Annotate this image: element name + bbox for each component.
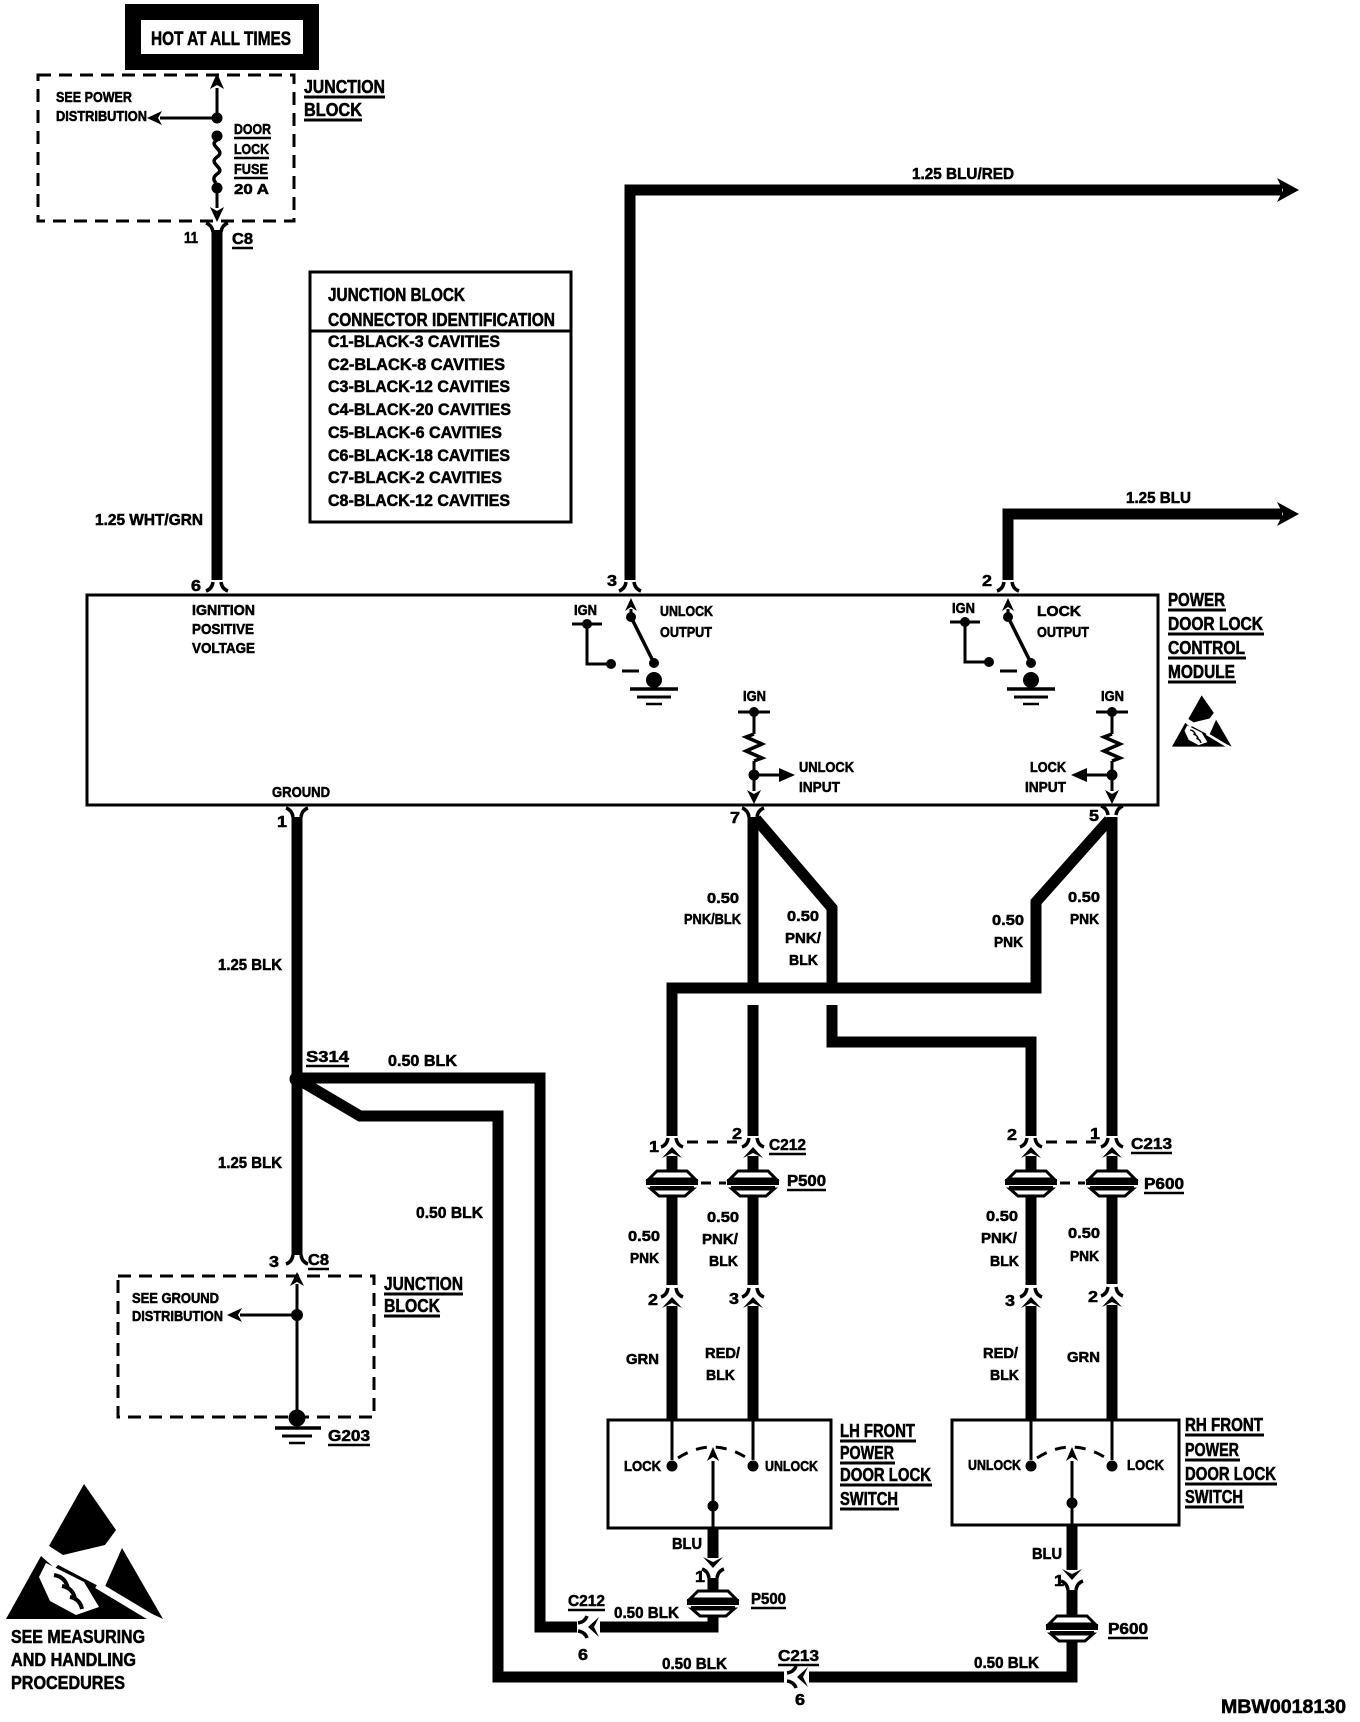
resistor: lock input pull-up xyxy=(1096,688,1128,781)
svg-text:6: 6 xyxy=(191,578,201,595)
wire: fuse output down-arrow to C8 xyxy=(210,193,224,222)
svg-text:FUSE: FUSE xyxy=(234,161,268,178)
dashed mating line C212 xyxy=(687,1141,737,1144)
svg-text:OUTPUT: OUTPUT xyxy=(660,624,712,641)
svg-text:C5-BLACK-6 CAVITIES: C5-BLACK-6 CAVITIES xyxy=(328,423,502,442)
wire 0.50 PNK/BLK (C212-2 to switch) xyxy=(748,1196,759,1285)
connector label C213 xyxy=(1131,1136,1172,1153)
svg-text:LOCK: LOCK xyxy=(624,1458,661,1475)
wire: pin 7 to C212 cavity 2 (below crossover) xyxy=(748,1005,759,1136)
svg-text:C3-BLACK-12 CAVITIES: C3-BLACK-12 CAVITIES xyxy=(328,377,510,396)
svg-text:RED/: RED/ xyxy=(705,1345,741,1362)
svg-text:2: 2 xyxy=(648,1292,658,1309)
hot at all times box xyxy=(125,4,319,70)
arrow to ground distribution xyxy=(227,1308,297,1322)
grommet P500 (common) xyxy=(687,1591,739,1616)
wire label 0.50 PNK/BLK (pin 7) xyxy=(684,890,741,928)
svg-text:0.50: 0.50 xyxy=(1068,1225,1100,1242)
svg-text:SEE GROUND: SEE GROUND xyxy=(132,1290,219,1307)
svg-text:BLU: BLU xyxy=(1032,1546,1062,1563)
connector C213 cavity 1 xyxy=(1101,1138,1123,1172)
svg-text:C213: C213 xyxy=(1131,1136,1172,1153)
svg-text:UNLOCK: UNLOCK xyxy=(660,603,713,620)
wire 0.50 BLK (P600 to C213 ground) xyxy=(809,1640,1072,1677)
svg-text:C1-BLACK-3 CAVITIES: C1-BLACK-3 CAVITIES xyxy=(328,332,500,351)
wire: pin 5 to C213 cavity 1 xyxy=(1107,817,1118,1136)
wire 1.25 BLK (S314 to junction block C8) xyxy=(292,1079,303,1255)
wire to G203 xyxy=(296,1315,299,1410)
svg-text:CONTROL: CONTROL xyxy=(1168,638,1245,658)
svg-text:C2-BLACK-8 CAVITIES: C2-BLACK-8 CAVITIES xyxy=(328,355,505,374)
svg-text:G203: G203 xyxy=(328,1428,370,1445)
svg-text:DOOR LOCK: DOOR LOCK xyxy=(1168,614,1263,634)
svg-text:OUTPUT: OUTPUT xyxy=(1037,624,1089,641)
connector: RH switch pin 3 xyxy=(1020,1288,1042,1421)
wire 0.50 PNK/BLK (C213-2 to switch) xyxy=(1026,1196,1037,1285)
svg-text:DOOR LOCK: DOOR LOCK xyxy=(840,1465,931,1485)
ground (unlock output) xyxy=(630,689,678,704)
svg-text:MODULE: MODULE xyxy=(1168,662,1235,682)
svg-text:BLK: BLK xyxy=(709,1253,738,1270)
svg-text:MBW0018130: MBW0018130 xyxy=(1221,1697,1346,1718)
wire 1.25 WHT/GRN (pin 6 feed) xyxy=(212,230,223,580)
wire 0.50 BLK branch A (S314 to C212 ground run) xyxy=(297,1078,577,1627)
svg-text:3: 3 xyxy=(1005,1293,1015,1310)
svg-text:PNK/BLK: PNK/BLK xyxy=(684,911,741,928)
pin 7 connector cup xyxy=(742,808,764,817)
wire: lock input to pin 5 xyxy=(1105,780,1119,804)
svg-text:PNK/: PNK/ xyxy=(981,1230,1018,1247)
svg-text:DISTRIBUTION: DISTRIBUTION xyxy=(132,1308,223,1325)
svg-text:LOCK: LOCK xyxy=(1037,603,1081,620)
svg-text:1.25 BLK: 1.25 BLK xyxy=(218,1155,282,1172)
svg-text:LOCK: LOCK xyxy=(1127,1457,1164,1474)
svg-text:RED/: RED/ xyxy=(983,1345,1019,1362)
svg-text:SWITCH: SWITCH xyxy=(840,1489,898,1509)
connector label C212 (ground) xyxy=(568,1593,605,1610)
svg-text:INPUT: INPUT xyxy=(799,779,840,796)
resistor: unlock input pull-up xyxy=(738,688,770,781)
svg-text:JUNCTION: JUNCTION xyxy=(384,1274,463,1294)
connector label C213 (ground) xyxy=(778,1648,819,1665)
svg-text:P500: P500 xyxy=(787,1173,826,1190)
wire 1.25 BLK (pin 1 to S314) xyxy=(292,817,303,1079)
pin 5 connector cup xyxy=(1101,806,1123,815)
svg-text:POWER: POWER xyxy=(1168,590,1225,610)
wire: pin 7 to C212 cavity 2 (upper) xyxy=(748,817,759,983)
connector C213 cavity 2 xyxy=(1020,1138,1042,1172)
ground G203 xyxy=(275,1410,321,1444)
lock output driver switch xyxy=(1002,598,1039,688)
wire label RED/BLK (LH) xyxy=(705,1345,741,1384)
RH front power door lock switch box xyxy=(952,1420,1179,1525)
wire label 0.50 PNK (pin 5) xyxy=(1068,889,1100,928)
svg-text:7: 7 xyxy=(730,810,740,827)
svg-text:P500: P500 xyxy=(751,1591,786,1608)
junction block label (ground) xyxy=(384,1274,463,1316)
svg-text:11: 11 xyxy=(184,230,198,247)
svg-text:LOCK: LOCK xyxy=(1030,759,1066,776)
wire BLU (LH switch common) xyxy=(708,1528,719,1558)
connector C8 cavity 3 cup xyxy=(286,1255,308,1264)
svg-text:0.50 BLK: 0.50 BLK xyxy=(388,1053,457,1070)
see ground distribution label xyxy=(132,1290,223,1325)
svg-text:0.50 BLK: 0.50 BLK xyxy=(662,1656,727,1673)
LH switch name label xyxy=(840,1421,932,1509)
splice label S314 xyxy=(306,1049,349,1066)
grommet label P600 (common) xyxy=(1108,1621,1148,1638)
wire label RED/BLK (RH) xyxy=(983,1345,1019,1384)
svg-text:POWER: POWER xyxy=(1185,1440,1239,1460)
grommet P500 (cavity 1) xyxy=(646,1171,698,1196)
svg-text:BLOCK: BLOCK xyxy=(384,1296,440,1316)
wire 0.50 PNK (C213-1 to switch) xyxy=(1107,1196,1118,1284)
connector: RH switch pin 1 xyxy=(1061,1569,1083,1616)
svg-text:1.25 BLK: 1.25 BLK xyxy=(218,957,282,974)
pin 3 connector cup xyxy=(619,582,641,591)
svg-text:BLK: BLK xyxy=(706,1367,735,1384)
connector: LH switch pin 1 xyxy=(702,1557,724,1592)
arrow: unlock input tap xyxy=(754,768,795,782)
svg-text:AND HANDLING: AND HANDLING xyxy=(11,1650,136,1670)
grommet label P500 xyxy=(787,1173,826,1190)
wire 1.25 BLU (lock output to rear) xyxy=(1008,502,1299,580)
svg-text:IGNITION: IGNITION xyxy=(192,602,255,619)
svg-text:POSITIVE: POSITIVE xyxy=(192,621,254,638)
svg-text:INPUT: INPUT xyxy=(1025,779,1066,796)
wire label 0.50 PNK (RH) xyxy=(1068,1225,1100,1265)
svg-text:P600: P600 xyxy=(1108,1621,1148,1638)
svg-text:1: 1 xyxy=(649,1139,659,1156)
svg-text:3: 3 xyxy=(729,1291,739,1308)
svg-text:PNK/: PNK/ xyxy=(785,930,822,947)
svg-text:0.50: 0.50 xyxy=(707,1209,739,1226)
inline connector C212 cavity 6 xyxy=(578,1616,599,1638)
wire BLU (RH switch common) xyxy=(1067,1525,1078,1570)
svg-text:0.50: 0.50 xyxy=(1068,889,1100,906)
wire: C8 up-arrow inside ground block xyxy=(290,1272,304,1315)
svg-text:C8: C8 xyxy=(232,231,253,248)
wire label 0.50 PNK (LH) xyxy=(628,1228,660,1267)
ground (lock output) xyxy=(1007,689,1055,704)
svg-text:C212: C212 xyxy=(568,1593,605,1610)
module label LOCK OUTPUT xyxy=(1037,603,1089,641)
ESD symbol (module) xyxy=(1172,695,1232,748)
svg-text:1.25 BLU: 1.25 BLU xyxy=(1126,490,1191,507)
connector label C8 (lower) xyxy=(308,1252,329,1269)
svg-text:0.50: 0.50 xyxy=(707,890,739,907)
svg-text:BLK: BLK xyxy=(789,952,818,969)
fuse value label xyxy=(234,121,271,198)
svg-text:JUNCTION: JUNCTION xyxy=(304,77,385,97)
grommet P500 (cavity 2) xyxy=(727,1171,779,1196)
junction block dashed box (top) xyxy=(38,75,294,221)
ESD symbol (bottom left) xyxy=(6,1484,163,1624)
connector: LH switch pin 3 xyxy=(742,1288,764,1421)
wire: unlock crossover run to C213 cavity 2 xyxy=(832,1005,1031,1136)
junction block connector identification table xyxy=(310,272,571,522)
wire: unlock input to pin 7 xyxy=(747,780,761,804)
svg-text:0.50: 0.50 xyxy=(986,1208,1018,1225)
svg-text:BLK: BLK xyxy=(990,1367,1019,1384)
junction block dashed box (ground) xyxy=(118,1276,374,1417)
module label UNLOCK OUTPUT xyxy=(660,603,713,641)
svg-text:PNK: PNK xyxy=(1070,911,1099,928)
svg-text:JUNCTION BLOCK: JUNCTION BLOCK xyxy=(328,285,465,305)
fuse DOOR LOCK FUSE 20 A xyxy=(212,131,223,194)
svg-text:DOOR LOCK: DOOR LOCK xyxy=(1185,1464,1276,1484)
svg-text:C6-BLACK-18 CAVITIES: C6-BLACK-18 CAVITIES xyxy=(328,446,510,465)
connector C212 cavity 1 xyxy=(661,1138,683,1172)
wire 0.50 BLK branch B (S314 to C213 ground run) xyxy=(299,1080,784,1677)
svg-text:BLK: BLK xyxy=(990,1253,1019,1270)
wire label 0.50 PNK/BLK (diagonal) xyxy=(785,908,822,969)
dashed line between P600 grommets xyxy=(1060,1182,1085,1185)
svg-text:C4-BLACK-20 CAVITIES: C4-BLACK-20 CAVITIES xyxy=(328,400,511,419)
svg-text:LH FRONT: LH FRONT xyxy=(840,1421,915,1441)
svg-text:DISTRIBUTION: DISTRIBUTION xyxy=(56,108,147,125)
connector label C212 xyxy=(769,1137,806,1154)
svg-text:BLOCK: BLOCK xyxy=(304,100,362,120)
svg-text:1: 1 xyxy=(277,814,287,831)
svg-text:0.50: 0.50 xyxy=(992,912,1024,929)
svg-text:2: 2 xyxy=(1007,1127,1017,1144)
pin 6 connector cup xyxy=(206,582,228,591)
svg-text:PNK: PNK xyxy=(994,934,1023,951)
svg-text:SWITCH: SWITCH xyxy=(1185,1487,1243,1507)
inline connector C213 cavity 6 xyxy=(787,1666,808,1688)
RH switch name label xyxy=(1185,1415,1277,1507)
svg-text:1.25 BLU/RED: 1.25 BLU/RED xyxy=(912,166,1014,183)
svg-text:SEE MEASURING: SEE MEASURING xyxy=(11,1627,145,1647)
svg-text:VOLTAGE: VOLTAGE xyxy=(192,640,255,657)
wire 0.50 PNK (C212-1 to switch) xyxy=(667,1196,678,1285)
dashed mating line C213 xyxy=(1046,1141,1096,1144)
pin 2 connector cup xyxy=(997,582,1019,591)
svg-text:5: 5 xyxy=(1089,808,1099,825)
wire: fuse feed up-arrow to hot bus xyxy=(210,73,224,118)
connector C8 cavity 11 cup xyxy=(206,223,228,232)
svg-text:20 A: 20 A xyxy=(234,181,269,198)
wire: branch arrow to power distribution xyxy=(147,111,217,125)
svg-text:0.50 BLK: 0.50 BLK xyxy=(416,1205,483,1222)
connector: LH switch pin 2 xyxy=(661,1288,683,1421)
unlock output driver switch xyxy=(625,598,662,688)
see power distribution label xyxy=(56,89,147,125)
svg-text:UNLOCK: UNLOCK xyxy=(968,1457,1021,1474)
node S314 xyxy=(290,1072,305,1087)
module name label POWER DOOR LOCK CONTROL MODULE xyxy=(1168,590,1264,682)
wire 0.50 PNK/BLK diagonal (pin 7 to unlock crossover) xyxy=(756,819,832,983)
svg-text:1: 1 xyxy=(1090,1126,1100,1143)
RH switch internals xyxy=(1026,1421,1118,1525)
svg-text:PNK: PNK xyxy=(1070,1248,1099,1265)
wire 1.25 BLU/RED (unlock output to rear) xyxy=(630,178,1299,580)
svg-text:2: 2 xyxy=(1088,1289,1098,1306)
svg-text:6: 6 xyxy=(795,1692,805,1709)
ground label G203 xyxy=(328,1428,370,1445)
module label LOCK INPUT xyxy=(1025,759,1066,796)
svg-text:RH FRONT: RH FRONT xyxy=(1185,1415,1263,1435)
wire label 0.50 PNK/BLK (RH) xyxy=(981,1208,1019,1270)
svg-text:C7-BLACK-2 CAVITIES: C7-BLACK-2 CAVITIES xyxy=(328,468,502,487)
svg-text:0.50: 0.50 xyxy=(787,908,819,925)
svg-text:0.50 BLK: 0.50 BLK xyxy=(614,1605,679,1622)
svg-text:1: 1 xyxy=(1054,1573,1064,1590)
svg-text:0.50 BLK: 0.50 BLK xyxy=(974,1655,1039,1672)
grommet P600 (cavity 2) xyxy=(1005,1171,1057,1196)
connector label C8 xyxy=(232,231,253,248)
svg-text:IGN: IGN xyxy=(1101,688,1124,705)
module label IGNITION POSITIVE VOLTAGE xyxy=(192,602,255,657)
svg-text:IGN: IGN xyxy=(952,600,975,617)
node: fuse feed junction xyxy=(212,113,223,124)
svg-text:GRN: GRN xyxy=(1067,1349,1100,1366)
svg-text:6: 6 xyxy=(578,1647,588,1664)
module label UNLOCK INPUT xyxy=(799,759,854,796)
svg-text:C212: C212 xyxy=(769,1137,806,1154)
junction block label xyxy=(304,77,385,120)
svg-text:1: 1 xyxy=(695,1569,705,1586)
svg-text:PNK: PNK xyxy=(630,1250,659,1267)
svg-text:PNK/: PNK/ xyxy=(702,1231,739,1248)
svg-text:DOOR: DOOR xyxy=(234,121,271,138)
see measuring and handling procedures label xyxy=(11,1627,145,1693)
svg-text:2: 2 xyxy=(982,573,992,590)
grommet P600 (common) xyxy=(1046,1616,1098,1641)
svg-text:LOCK: LOCK xyxy=(234,141,269,158)
svg-text:C8: C8 xyxy=(308,1252,329,1269)
wire 0.50 BLK (P500 to C212 ground) xyxy=(600,1615,713,1627)
LH front power door lock switch box xyxy=(608,1420,831,1528)
svg-text:UNLOCK: UNLOCK xyxy=(765,1458,818,1475)
power door lock control module box xyxy=(87,595,1158,805)
connector: RH switch pin 2 xyxy=(1101,1287,1123,1421)
wire: lock crossover run C212 cavity 1 to pin 5 xyxy=(672,820,1109,1136)
svg-text:3: 3 xyxy=(607,573,617,590)
svg-text:HOT AT ALL TIMES: HOT AT ALL TIMES xyxy=(151,29,291,50)
svg-text:POWER: POWER xyxy=(840,1443,894,1463)
svg-text:S314: S314 xyxy=(306,1049,349,1066)
svg-text:SEE POWER: SEE POWER xyxy=(56,89,132,106)
grommet label P500 (common) xyxy=(751,1591,786,1608)
svg-text:0.50: 0.50 xyxy=(628,1228,660,1245)
connector C212 cavity 2 xyxy=(742,1138,764,1172)
svg-text:UNLOCK: UNLOCK xyxy=(799,759,854,776)
svg-text:3: 3 xyxy=(269,1254,279,1271)
svg-text:C213: C213 xyxy=(778,1648,819,1665)
svg-text:P600: P600 xyxy=(1144,1176,1184,1193)
svg-text:1.25 WHT/GRN: 1.25 WHT/GRN xyxy=(95,512,203,529)
LH switch internals xyxy=(667,1421,759,1528)
svg-text:GRN: GRN xyxy=(626,1351,659,1368)
svg-text:IGN: IGN xyxy=(743,688,766,705)
wire label 0.50 PNK/BLK (LH) xyxy=(702,1209,739,1270)
pin 1 connector cup xyxy=(286,808,308,817)
IGN feed (lock output) xyxy=(950,600,1017,671)
grommet label P600 xyxy=(1144,1176,1184,1193)
svg-text:GROUND: GROUND xyxy=(272,784,330,801)
svg-text:2: 2 xyxy=(732,1126,742,1143)
arrow: lock input tap xyxy=(1071,768,1112,782)
svg-text:BLU: BLU xyxy=(672,1536,702,1553)
dashed line between P500 grommets xyxy=(701,1182,726,1185)
svg-text:PROCEDURES: PROCEDURES xyxy=(11,1673,125,1693)
svg-text:C8-BLACK-12 CAVITIES: C8-BLACK-12 CAVITIES xyxy=(328,491,510,510)
grommet P600 (cavity 1) xyxy=(1086,1171,1138,1196)
wire label 0.50 PNK (crossover) xyxy=(992,912,1024,951)
svg-text:IGN: IGN xyxy=(574,602,597,619)
svg-text:CONNECTOR IDENTIFICATION: CONNECTOR IDENTIFICATION xyxy=(328,310,555,330)
node: ground block junction xyxy=(291,1309,303,1321)
IGN feed (unlock output) xyxy=(572,602,639,671)
